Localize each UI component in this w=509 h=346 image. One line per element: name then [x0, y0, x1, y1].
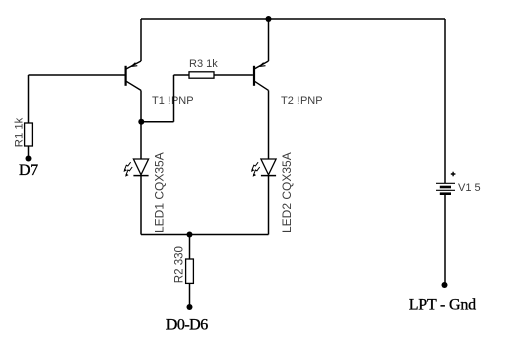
wire battery column top — [444, 19, 446, 183]
transistor T1 — [125, 61, 142, 90]
wire R3 branch vertical — [173, 75, 175, 122]
wire T1 collector column — [140, 90, 142, 159]
wire T1 emitter column — [140, 19, 142, 61]
wire T2 collector column — [268, 90, 270, 159]
LED LED2 — [251, 152, 294, 233]
wire R1 bottom lead — [28, 146, 30, 159]
svg-text:R3 1k: R3 1k — [189, 58, 218, 70]
svg-text:D7: D7 — [19, 162, 38, 179]
node terminal D0-D6 — [187, 304, 193, 310]
resistor R3 — [189, 58, 218, 78]
svg-text:R2 330: R2 330 — [174, 246, 186, 283]
wire battery bottom lead — [444, 195, 446, 285]
wire left base wire from R1 to T1 — [29, 74, 125, 76]
wire top rail — [141, 18, 445, 20]
wire R3 branch horizontal lower — [141, 121, 173, 123]
wire bottom rail — [141, 234, 269, 236]
wire R3 right lead to T2 base — [214, 74, 253, 76]
svg-text:V1 5: V1 5 — [458, 182, 481, 194]
svg-text:D0-D6: D0-D6 — [166, 316, 208, 333]
node terminal LPT-Gnd — [442, 282, 448, 288]
wire LED2 cathode to bottom rail — [268, 176, 270, 235]
svg-text:LED2 CQX35A: LED2 CQX35A — [280, 152, 294, 233]
svg-text:R1 1k: R1 1k — [14, 117, 26, 147]
svg-text:LED1 CQX35A: LED1 CQX35A — [153, 152, 167, 233]
LED LED1 — [124, 152, 167, 233]
wire R2 top lead — [189, 235, 191, 260]
svg-text:T2 !PNP: T2 !PNP — [281, 95, 323, 107]
battery V1 — [436, 172, 481, 194]
node terminal D7 — [26, 156, 32, 162]
transistor T2 — [253, 61, 269, 90]
svg-text:LPT - Gnd: LPT - Gnd — [409, 297, 476, 314]
node junction T1 collector / R3 branch — [138, 119, 144, 125]
wire R2 bottom lead — [189, 283, 191, 307]
wire R3 left lead — [174, 74, 190, 76]
node junction top rail / T2 emitter — [266, 16, 272, 22]
node junction bottom rail / R2 — [187, 232, 193, 238]
wire R1 top lead — [28, 75, 30, 123]
resistor R1 — [14, 117, 33, 147]
wire T2 emitter column — [268, 19, 270, 61]
resistor R2 — [174, 246, 194, 283]
wire LED1 cathode to bottom rail — [140, 176, 142, 235]
